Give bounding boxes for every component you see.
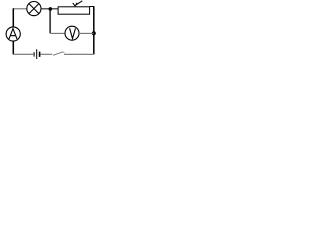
battery B1 plate short left (33, 52, 35, 57)
wire to voltmeter left (50, 32, 65, 34)
wire switch to right (64, 53, 94, 55)
battery B1 plate long (36, 49, 38, 59)
rheostat slider arrow (76, 1, 82, 5)
voltmeter V1 (65, 26, 79, 40)
wire lamp to rheostat (41, 8, 58, 10)
wire right rail (93, 6, 95, 54)
wire bottom left (13, 53, 33, 55)
wire top-left horizontal (13, 8, 27, 10)
node junction dot B (92, 31, 96, 35)
wire voltmeter right to node B (79, 32, 94, 34)
wire battery to switch (41, 53, 53, 55)
switch S1 blade (53, 52, 63, 56)
ammeter A1 (6, 27, 20, 41)
wire rheostat to right rail (90, 6, 94, 8)
wire left rail lower (12, 41, 14, 54)
wire left rail upper (12, 8, 14, 27)
lamp L1 (27, 2, 41, 16)
node junction dot A (49, 7, 53, 11)
switch S1 right nub (63, 51, 65, 54)
rheostat R1 (58, 7, 90, 14)
wire voltmeter drop from node A (49, 9, 51, 33)
battery B1 plate short thick (39, 52, 41, 57)
